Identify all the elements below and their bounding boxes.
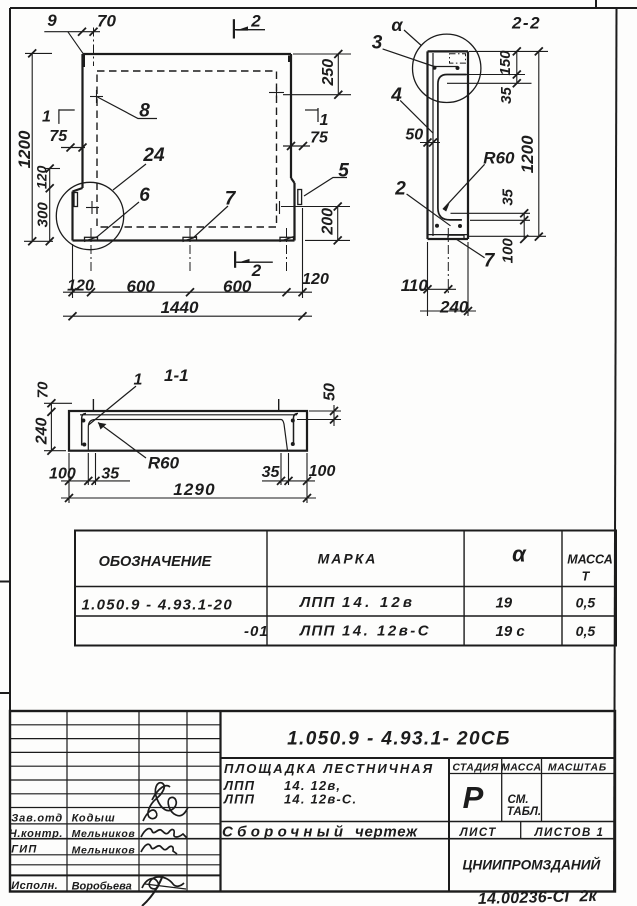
svg-text:Воробьева: Воробьева bbox=[72, 881, 132, 893]
svg-text:14. 12в-С: 14. 12в-С bbox=[342, 623, 431, 640]
svg-text:240: 240 bbox=[34, 417, 51, 445]
svg-text:α: α bbox=[512, 542, 527, 567]
svg-text:200: 200 bbox=[320, 208, 337, 236]
svg-text:19: 19 bbox=[495, 595, 512, 612]
svg-text:1-1: 1-1 bbox=[164, 366, 189, 385]
svg-text:Мельников: Мельников bbox=[72, 828, 136, 840]
svg-text:14. 12в: 14. 12в bbox=[342, 594, 415, 611]
svg-text:100: 100 bbox=[309, 463, 336, 480]
svg-text:14. 12в-С.: 14. 12в-С. bbox=[284, 792, 357, 807]
svg-text:ЦНИИПРОМЗДАНИЙ: ЦНИИПРОМЗДАНИЙ bbox=[463, 857, 602, 873]
svg-text:ГИП: ГИП bbox=[11, 844, 37, 856]
svg-text:СМ.: СМ. bbox=[508, 794, 529, 806]
svg-text:35: 35 bbox=[500, 188, 517, 205]
svg-text:1440: 1440 bbox=[161, 298, 199, 317]
svg-text:14.00236-СГ 2к: 14.00236-СГ 2к bbox=[478, 888, 598, 906]
svg-text:Н.контр.: Н.контр. bbox=[9, 828, 63, 840]
svg-text:ЛПП: ЛПП bbox=[299, 623, 335, 640]
svg-text:МАССА: МАССА bbox=[501, 762, 541, 774]
svg-text:Р: Р bbox=[463, 780, 484, 815]
svg-text:СТАДИЯ: СТАДИЯ bbox=[452, 762, 498, 774]
svg-text:Кодыш: Кодыш bbox=[72, 813, 116, 825]
svg-text:150: 150 bbox=[497, 50, 514, 76]
svg-text:8: 8 bbox=[139, 101, 150, 122]
svg-text:2-2: 2-2 bbox=[511, 14, 541, 33]
svg-text:100: 100 bbox=[49, 466, 76, 483]
svg-text:600: 600 bbox=[127, 277, 156, 296]
svg-text:1: 1 bbox=[42, 109, 51, 126]
svg-text:120: 120 bbox=[34, 165, 50, 189]
svg-text:35: 35 bbox=[262, 464, 281, 481]
svg-text:70: 70 bbox=[34, 381, 51, 398]
svg-text:5: 5 bbox=[338, 161, 349, 182]
svg-text:120: 120 bbox=[302, 271, 329, 288]
svg-text:ТАБЛ.: ТАБЛ. bbox=[507, 806, 541, 818]
svg-text:R60: R60 bbox=[483, 149, 515, 168]
svg-text:3: 3 bbox=[372, 33, 383, 54]
svg-text:1290: 1290 bbox=[173, 480, 216, 499]
svg-text:110: 110 bbox=[401, 276, 429, 295]
svg-text:9: 9 bbox=[47, 11, 57, 30]
svg-text:ЛИСТОВ 1: ЛИСТОВ 1 bbox=[534, 827, 605, 839]
svg-text:-01: -01 bbox=[244, 623, 269, 640]
svg-text:ОБОЗНАЧЕНИЕ: ОБОЗНАЧЕНИЕ bbox=[99, 554, 213, 570]
svg-text:2: 2 bbox=[394, 179, 406, 200]
svg-text:R60: R60 bbox=[148, 454, 180, 473]
svg-text:1200: 1200 bbox=[15, 130, 34, 168]
svg-text:Зав.отд: Зав.отд bbox=[11, 813, 63, 825]
svg-text:250: 250 bbox=[320, 59, 337, 87]
svg-text:2: 2 bbox=[250, 12, 261, 31]
svg-text:50: 50 bbox=[405, 127, 423, 144]
svg-text:600: 600 bbox=[223, 277, 252, 296]
svg-text:70: 70 bbox=[97, 12, 116, 31]
svg-text:Исполн.: Исполн. bbox=[11, 880, 58, 892]
svg-text:240: 240 bbox=[439, 298, 469, 317]
svg-text:6: 6 bbox=[139, 185, 150, 206]
svg-text:ЛПП: ЛПП bbox=[223, 792, 255, 807]
svg-text:1200: 1200 bbox=[518, 135, 537, 173]
svg-text:2: 2 bbox=[251, 261, 262, 280]
svg-text:0,5: 0,5 bbox=[576, 623, 596, 639]
svg-text:1.050.9 - 4.93.1- 20СБ: 1.050.9 - 4.93.1- 20СБ bbox=[287, 729, 511, 750]
svg-text:ЛИСТ: ЛИСТ bbox=[459, 827, 497, 839]
svg-text:МАСШТАБ: МАСШТАБ bbox=[548, 762, 607, 774]
svg-text:1.050.9 - 4.93.1-20: 1.050.9 - 4.93.1-20 bbox=[82, 597, 233, 614]
svg-text:35: 35 bbox=[498, 87, 515, 104]
svg-text:Сборочный: Сборочный bbox=[222, 824, 347, 841]
svg-text:100: 100 bbox=[499, 238, 516, 264]
svg-text:ПЛОЩАДКА ЛЕСТНИЧНАЯ: ПЛОЩАДКА ЛЕСТНИЧНАЯ bbox=[224, 761, 434, 776]
svg-text:1: 1 bbox=[134, 372, 143, 389]
svg-text:4: 4 bbox=[390, 85, 402, 106]
svg-text:75: 75 bbox=[49, 128, 68, 145]
svg-text:МАССА: МАССА bbox=[567, 553, 613, 567]
svg-text:1: 1 bbox=[320, 112, 329, 129]
svg-text:ЛПП: ЛПП bbox=[299, 594, 335, 611]
svg-text:Мельников: Мельников bbox=[72, 845, 136, 857]
svg-text:α: α bbox=[391, 15, 403, 35]
svg-text:300: 300 bbox=[34, 202, 51, 228]
svg-text:7: 7 bbox=[484, 251, 496, 272]
svg-text:МАРКА: МАРКА bbox=[318, 551, 378, 567]
svg-text:Т: Т bbox=[582, 570, 591, 584]
svg-text:35: 35 bbox=[101, 466, 120, 483]
svg-text:120: 120 bbox=[67, 278, 94, 295]
svg-text:7: 7 bbox=[225, 189, 237, 210]
svg-text:75: 75 bbox=[310, 130, 329, 147]
svg-text:24: 24 bbox=[142, 145, 165, 166]
svg-text:чертеж: чертеж bbox=[355, 824, 418, 841]
svg-text:19 с: 19 с bbox=[496, 623, 526, 640]
svg-text:0,5: 0,5 bbox=[576, 595, 596, 611]
svg-text:50: 50 bbox=[322, 383, 339, 401]
